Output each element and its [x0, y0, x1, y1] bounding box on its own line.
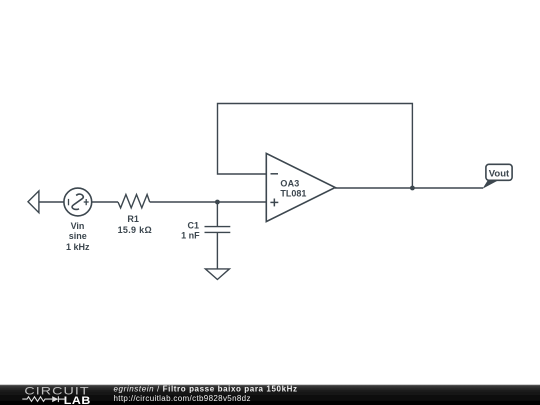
- svg-text:C1: C1: [187, 221, 199, 231]
- svg-text:Vout: Vout: [489, 169, 510, 180]
- svg-text:15.9 kΩ: 15.9 kΩ: [118, 225, 152, 235]
- svg-text:OA3: OA3: [280, 178, 299, 188]
- svg-text:R1: R1: [127, 214, 139, 224]
- svg-text:Vin: Vin: [71, 221, 85, 231]
- svg-text:sine: sine: [69, 231, 87, 241]
- svg-text:LAB: LAB: [64, 395, 91, 405]
- svg-text:1 nF: 1 nF: [181, 231, 200, 241]
- svg-text:1 kHz: 1 kHz: [66, 242, 90, 252]
- svg-text:egrinstein / Filtro passe baix: egrinstein / Filtro passe baixo para 150…: [114, 384, 298, 393]
- svg-text:http://circuitlab.com/ctb9828v: http://circuitlab.com/ctb9828v5n8dz: [114, 394, 251, 403]
- svg-text:TL081: TL081: [280, 189, 306, 199]
